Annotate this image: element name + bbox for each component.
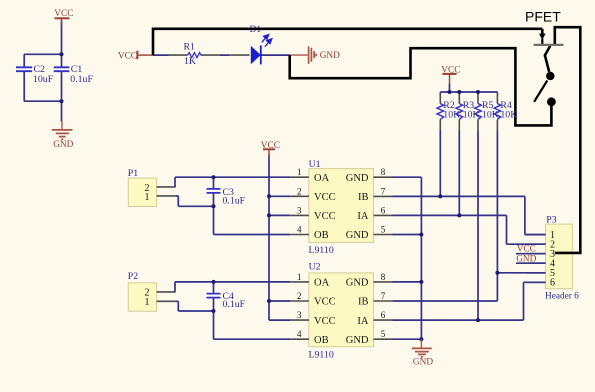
svg-text:P3: P3 xyxy=(546,214,556,225)
svg-text:GND: GND xyxy=(346,278,369,289)
svg-text:VCC: VCC xyxy=(118,51,137,61)
svg-text:VCC: VCC xyxy=(314,297,336,308)
svg-text:1: 1 xyxy=(145,297,150,308)
svg-text:10K: 10K xyxy=(463,109,480,120)
svg-text:1K: 1K xyxy=(184,56,196,67)
svg-text:GND: GND xyxy=(346,230,369,241)
svg-text:4: 4 xyxy=(297,225,302,235)
svg-text:0.1uF: 0.1uF xyxy=(223,195,246,206)
svg-text:L9110: L9110 xyxy=(309,349,334,360)
svg-text:10K: 10K xyxy=(443,109,460,120)
svg-text:0.1uF: 0.1uF xyxy=(223,299,246,310)
svg-text:5: 5 xyxy=(381,225,386,235)
svg-text:2: 2 xyxy=(297,186,302,196)
svg-text:3: 3 xyxy=(297,205,302,215)
svg-text:OB: OB xyxy=(314,230,329,241)
svg-text:VCC: VCC xyxy=(314,316,336,327)
svg-text:3: 3 xyxy=(297,310,302,320)
svg-text:VCC: VCC xyxy=(261,141,280,151)
svg-text:0.1uF: 0.1uF xyxy=(70,74,93,85)
svg-text:IB: IB xyxy=(358,192,369,203)
svg-text:Header 6: Header 6 xyxy=(545,291,579,301)
svg-text:6: 6 xyxy=(550,278,555,289)
svg-text:GND: GND xyxy=(516,254,536,264)
svg-text:GND: GND xyxy=(346,335,369,346)
svg-text:OA: OA xyxy=(314,278,330,289)
svg-text:6: 6 xyxy=(381,310,386,320)
svg-text:GND: GND xyxy=(320,51,340,61)
svg-text:8: 8 xyxy=(381,167,386,177)
svg-text:R1: R1 xyxy=(184,41,196,52)
svg-text:2: 2 xyxy=(297,291,302,301)
svg-text:IA: IA xyxy=(357,316,368,327)
svg-text:IA: IA xyxy=(357,211,368,222)
svg-text:VCC: VCC xyxy=(314,192,336,203)
svg-text:PFET: PFET xyxy=(525,9,561,25)
svg-text:VCC: VCC xyxy=(54,9,73,19)
svg-text:10uF: 10uF xyxy=(33,74,54,85)
svg-text:6: 6 xyxy=(381,205,386,215)
svg-text:5: 5 xyxy=(381,329,386,339)
svg-text:IB: IB xyxy=(358,297,369,308)
svg-text:1: 1 xyxy=(297,272,302,282)
svg-text:7: 7 xyxy=(381,291,386,301)
svg-text:1: 1 xyxy=(297,167,302,177)
svg-text:10K: 10K xyxy=(500,109,517,120)
svg-text:4: 4 xyxy=(297,329,302,339)
svg-text:P1: P1 xyxy=(128,168,138,179)
svg-text:7: 7 xyxy=(381,186,386,196)
svg-text:U1: U1 xyxy=(309,159,321,170)
svg-text:GND: GND xyxy=(413,357,433,367)
svg-text:P2: P2 xyxy=(128,271,138,282)
svg-text:10K: 10K xyxy=(482,109,499,120)
svg-text:VCC: VCC xyxy=(517,245,536,255)
svg-text:GND: GND xyxy=(53,140,73,150)
svg-text:8: 8 xyxy=(381,272,386,282)
svg-text:OB: OB xyxy=(314,335,329,346)
svg-text:OA: OA xyxy=(314,173,330,184)
svg-text:VCC: VCC xyxy=(314,211,336,222)
svg-text:1: 1 xyxy=(145,192,150,203)
svg-text:GND: GND xyxy=(346,173,369,184)
svg-text:L9110: L9110 xyxy=(309,245,334,256)
svg-text:U2: U2 xyxy=(309,262,321,273)
svg-text:VCC: VCC xyxy=(441,66,460,76)
